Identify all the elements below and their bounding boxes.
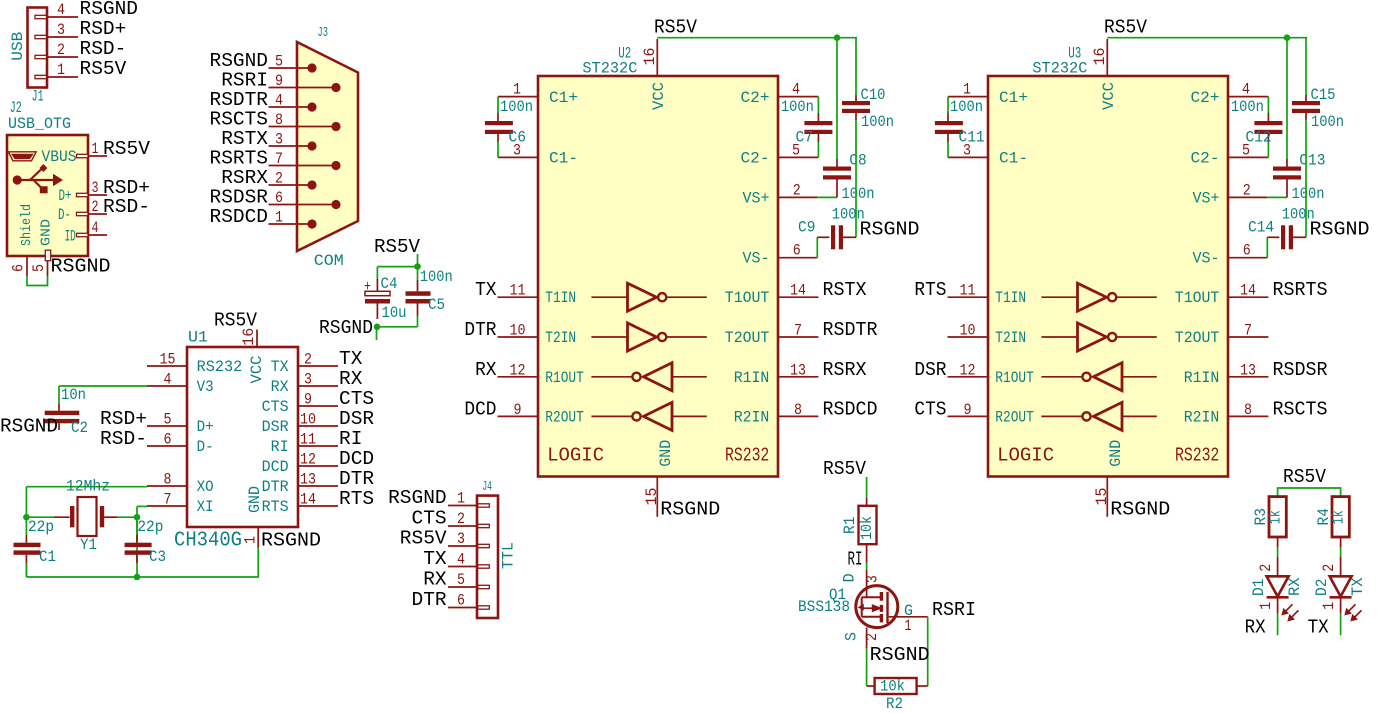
U1 pin 5 D+	[100, 408, 214, 436]
svg-text:RSD+: RSD+	[80, 18, 127, 40]
svg-text:RS232: RS232	[197, 358, 243, 376]
U3 label RS232	[1175, 444, 1219, 466]
svg-text:3: 3	[457, 530, 465, 548]
svg-text:R1IN: R1IN	[734, 369, 770, 387]
net label RS5V at U3	[1104, 17, 1147, 39]
svg-text:R1OUT: R1OUT	[545, 369, 584, 387]
svg-text:RSDTR: RSDTR	[823, 319, 878, 341]
svg-text:8: 8	[794, 401, 802, 419]
svg-text:C2-: C2-	[1191, 149, 1220, 167]
wire RS5V rail at U3	[1107, 37, 1307, 39]
J3 pin 6 RSDSR	[210, 187, 341, 210]
U3 refdes	[1068, 45, 1081, 63]
svg-text:C12: C12	[1246, 129, 1272, 147]
U2 receive buffer 2	[591, 402, 706, 430]
U2 value ST232C	[582, 60, 637, 78]
svg-text:2: 2	[863, 633, 881, 641]
svg-text:8: 8	[164, 471, 172, 489]
svg-text:1: 1	[457, 490, 465, 508]
U3 pin 14 T1OUT	[1175, 279, 1328, 307]
svg-text:COM: COM	[314, 252, 344, 270]
svg-text:1: 1	[1320, 602, 1338, 610]
IC U1 CH340G body	[187, 347, 298, 527]
U2 transmit buffer 1	[591, 283, 706, 311]
U1 pin 7 XI	[147, 491, 214, 517]
J1 name label USB	[9, 32, 27, 61]
svg-text:7: 7	[275, 150, 283, 168]
svg-text:RX: RX	[423, 569, 447, 591]
U2 label GND	[657, 440, 675, 467]
J3 refdes	[318, 26, 329, 41]
svg-text:RSD-: RSD-	[80, 38, 127, 60]
J4 name label TTL	[500, 542, 518, 569]
J4 pin 1 RSGND	[388, 487, 489, 509]
svg-text:4: 4	[164, 371, 172, 389]
svg-text:DCD: DCD	[464, 398, 496, 420]
Q1 value BSS138	[798, 598, 850, 616]
U2 pin 5 C2-	[741, 141, 819, 167]
svg-text:3: 3	[275, 131, 283, 149]
J2 refdes	[10, 99, 22, 117]
svg-text:XO: XO	[197, 478, 214, 496]
U1 pin 15 RS232	[147, 351, 242, 377]
net label RSGND at Q1 source	[870, 644, 930, 666]
svg-text:RTS: RTS	[262, 498, 289, 516]
svg-text:1: 1	[92, 140, 99, 158]
svg-text:RS5V: RS5V	[823, 458, 866, 480]
svg-text:DCD: DCD	[262, 458, 289, 476]
svg-text:4: 4	[457, 551, 465, 569]
J2 pin 1 VBUS / RS5V	[42, 138, 151, 166]
svg-text:USB: USB	[9, 32, 27, 61]
svg-text:10u: 10u	[382, 304, 407, 322]
svg-text:TX: TX	[339, 348, 363, 370]
junction crystal right	[134, 514, 141, 521]
svg-text:7: 7	[794, 322, 802, 340]
net label RS5V at LEDs	[1283, 466, 1326, 488]
svg-text:RS232: RS232	[725, 444, 769, 466]
Q1 refdes	[829, 586, 846, 604]
svg-text:C10: C10	[861, 86, 886, 104]
svg-text:ST232C: ST232C	[1032, 60, 1087, 78]
net label RSGND at U3 pin 15	[1110, 499, 1170, 521]
svg-text:RSGND: RSGND	[1110, 499, 1170, 521]
wire RS5V rail at U2	[657, 37, 857, 39]
capacitor C1 22p	[14, 517, 57, 577]
net label RSGND at C14	[1310, 219, 1370, 241]
svg-text:VCC: VCC	[1100, 82, 1118, 110]
D2 labels	[1313, 564, 1367, 610]
wire R3 to D1	[1277, 547, 1279, 556]
net label RS5V at C4/C5	[374, 236, 420, 258]
J4 refdes	[482, 480, 492, 495]
svg-text:DSR: DSR	[914, 359, 946, 381]
svg-text:10: 10	[510, 322, 526, 340]
U3 transmit buffer 2	[1041, 323, 1156, 351]
svg-text:C13: C13	[1299, 151, 1325, 169]
svg-text:RSDSR: RSDSR	[1273, 359, 1328, 381]
svg-text:VS-: VS-	[1193, 250, 1220, 268]
svg-text:2: 2	[1243, 181, 1251, 199]
U2 pin 9 R2OUT	[464, 398, 583, 426]
svg-text:VCC: VCC	[248, 356, 266, 384]
svg-text:6: 6	[457, 592, 465, 610]
svg-text:10k: 10k	[858, 516, 876, 540]
svg-text:14: 14	[790, 282, 806, 300]
wire D2 to TX net	[1340, 613, 1342, 635]
capacitor C14 100n	[1248, 205, 1315, 257]
svg-text:1: 1	[57, 61, 65, 79]
svg-text:6: 6	[10, 264, 28, 272]
svg-text:2: 2	[457, 510, 465, 528]
U3 value ST232C	[1032, 60, 1087, 78]
svg-text:C8: C8	[849, 151, 866, 169]
svg-text:11: 11	[510, 282, 526, 300]
svg-text:C11: C11	[959, 129, 985, 147]
svg-text:ST232C: ST232C	[582, 60, 637, 78]
svg-text:DTR: DTR	[464, 319, 496, 341]
J4 pin 2 CTS	[412, 508, 490, 530]
connector J4 TTL body	[477, 496, 498, 618]
svg-text:RS5V: RS5V	[400, 528, 447, 550]
svg-text:RSGND: RSGND	[319, 317, 373, 339]
svg-text:RSRX: RSRX	[823, 359, 867, 381]
svg-text:6: 6	[793, 242, 801, 260]
svg-text:RS232: RS232	[1175, 444, 1219, 466]
capacitor C15 100n	[1292, 38, 1344, 238]
wire RI net	[866, 563, 868, 571]
U3 pin 10 T2IN	[948, 322, 1027, 348]
wire U1 pin1 to ground bus	[137, 547, 258, 577]
J4 pin 4 TX	[423, 548, 489, 570]
svg-text:9: 9	[514, 401, 522, 419]
junction C4 bottom	[374, 324, 381, 331]
J3 name label COM	[314, 252, 344, 270]
svg-text:100n: 100n	[1231, 98, 1264, 116]
U3 pin 16 VCC	[1091, 39, 1109, 76]
net label RSGND at U1 pin1	[261, 530, 321, 552]
svg-text:4: 4	[792, 81, 800, 99]
svg-text:15: 15	[643, 488, 661, 506]
connector J2 USB_OTG value label	[8, 115, 71, 133]
U1 pin 6 D-	[100, 428, 214, 456]
svg-text:TTL: TTL	[500, 542, 518, 569]
svg-text:CH340G: CH340G	[174, 530, 242, 553]
svg-text:GND: GND	[1107, 440, 1125, 467]
svg-text:4: 4	[57, 1, 65, 19]
wire RS5V to R1	[866, 477, 868, 498]
U3 label GND	[1107, 440, 1125, 467]
svg-text:2: 2	[304, 351, 312, 369]
net label RSRI	[932, 599, 976, 621]
svg-text:VBUS: VBUS	[42, 148, 77, 166]
U2 pin 13 R1IN	[734, 359, 867, 387]
net label RS5V at R1	[823, 458, 866, 480]
J3 pin 5 RSGND	[210, 50, 317, 73]
wire U1 pin4 V3 to C2	[59, 386, 147, 404]
svg-text:J4: J4	[482, 480, 492, 495]
svg-text:Y1: Y1	[80, 536, 97, 554]
svg-text:1k: 1k	[1267, 510, 1285, 524]
svg-text:22p: 22p	[137, 518, 163, 536]
J2 label Shield	[19, 204, 35, 246]
U3 pin 15 GND	[1093, 477, 1111, 517]
LED D2 TX	[1330, 557, 1362, 621]
J1 pin 3 RSD+	[35, 18, 126, 40]
svg-text:C15: C15	[1311, 86, 1336, 104]
U3 receive buffer 1	[1041, 363, 1156, 391]
U2 receive buffer 1	[591, 363, 706, 391]
U2 pin 15 GND	[643, 477, 661, 517]
svg-text:DSR: DSR	[262, 418, 289, 436]
svg-text:100n: 100n	[500, 98, 533, 116]
svg-text:C2: C2	[71, 419, 88, 437]
svg-text:6: 6	[275, 189, 283, 207]
svg-text:GND: GND	[657, 440, 675, 467]
svg-text:RS5V: RS5V	[374, 236, 420, 258]
svg-text:TX: TX	[1349, 577, 1367, 596]
capacitor C7 100n	[781, 97, 833, 158]
svg-text:RSRTS: RSRTS	[1273, 279, 1328, 301]
U3 pin 11 T1IN	[914, 279, 1026, 307]
svg-text:RSGND: RSGND	[388, 487, 447, 509]
svg-text:5: 5	[164, 411, 172, 429]
svg-text:R2OUT: R2OUT	[995, 408, 1034, 426]
U3 pin 12 R1OUT	[914, 359, 1033, 387]
net label RSGND at C2	[0, 416, 58, 438]
net label TX at D2	[1308, 616, 1329, 638]
svg-text:10: 10	[300, 411, 316, 429]
svg-text:RS5V: RS5V	[1104, 17, 1147, 39]
U2 label LOGIC	[547, 444, 604, 466]
svg-text:C3: C3	[149, 548, 166, 566]
J2 pin 4 ID	[65, 219, 107, 246]
svg-text:R2IN: R2IN	[1184, 408, 1220, 426]
U2 pin 3 C1-	[498, 141, 578, 167]
U3 pin 3 C1-	[948, 141, 1028, 167]
svg-text:100n: 100n	[1311, 113, 1344, 131]
J3 pin 8 RSCTS	[210, 109, 341, 132]
svg-text:DTR: DTR	[339, 468, 374, 490]
capacitor C4 10u polarized	[364, 275, 407, 322]
svg-text:RS5V: RS5V	[214, 310, 257, 332]
svg-text:CTS: CTS	[412, 508, 447, 530]
U3 receive buffer 2	[1041, 402, 1156, 430]
svg-text:Shield: Shield	[19, 204, 35, 246]
svg-text:DTR: DTR	[262, 478, 289, 496]
svg-text:10: 10	[960, 322, 976, 340]
J1 pin 2 RSD-	[35, 38, 126, 60]
svg-text:C7: C7	[796, 129, 813, 147]
D1 labels	[1250, 564, 1304, 610]
J2 pin 6 Shield stub	[10, 256, 28, 276]
U1 pin 1 GND	[242, 527, 260, 547]
U3 pin 4 C2+	[1191, 81, 1269, 107]
svg-text:C1-: C1-	[999, 149, 1028, 167]
U2 pin 8 R2IN	[734, 398, 878, 426]
svg-text:13: 13	[300, 471, 316, 489]
svg-text:2: 2	[793, 181, 801, 199]
J3 pin 3 RSTX	[221, 128, 316, 151]
U1 pin 8 XO	[147, 471, 214, 497]
svg-text:10n: 10n	[61, 386, 86, 404]
svg-text:V3: V3	[197, 378, 214, 396]
junction ground bus	[134, 574, 141, 581]
svg-text:C2+: C2+	[741, 89, 770, 107]
J4 pin 5 RX	[423, 569, 489, 591]
svg-text:4: 4	[1242, 81, 1250, 99]
svg-text:100n: 100n	[950, 98, 983, 116]
svg-text:RSGND: RSGND	[860, 219, 920, 241]
U2 pin 14 T1OUT	[725, 279, 867, 307]
svg-text:C9: C9	[798, 219, 815, 237]
wire gate to RSRI and R2 right	[927, 617, 929, 686]
svg-text:TX: TX	[1308, 616, 1329, 638]
U1 pin 4 V3	[147, 371, 214, 397]
svg-text:RSTX: RSTX	[823, 279, 867, 301]
capacitor C10 100n	[842, 38, 894, 238]
svg-text:RX: RX	[475, 359, 497, 381]
U3 label VCC	[1100, 82, 1118, 110]
svg-text:9: 9	[275, 72, 283, 90]
U2 pin 16 VCC	[641, 39, 659, 76]
svg-text:5: 5	[275, 53, 283, 71]
svg-text:2: 2	[1320, 564, 1338, 572]
svg-text:1: 1	[963, 81, 971, 99]
wire VS+ to C8	[817, 196, 837, 198]
svg-text:XI: XI	[197, 498, 214, 516]
svg-text:TX: TX	[423, 548, 447, 570]
wire RS5V to R3/R4	[1278, 488, 1341, 497]
svg-text:2: 2	[1257, 564, 1275, 572]
LED D1 RX	[1267, 557, 1299, 621]
wire J2 pins 6-5 to RSGND	[27, 276, 48, 286]
svg-text:R2OUT: R2OUT	[545, 408, 584, 426]
svg-text:11: 11	[300, 431, 316, 449]
svg-text:D1: D1	[1250, 579, 1268, 596]
U1 refdes	[188, 329, 208, 347]
svg-text:RSCTS: RSCTS	[1273, 398, 1328, 420]
U2 label RS232	[725, 444, 769, 466]
svg-text:16: 16	[1091, 48, 1109, 66]
junction RS5V rail at U3	[1284, 34, 1291, 41]
net label RS5V at U2	[654, 17, 697, 39]
net label RSGND at C9	[860, 219, 920, 241]
resistor R4 1k	[1315, 497, 1349, 548]
capacitor C13 100n	[1273, 38, 1325, 203]
resistor R2 10k	[867, 678, 928, 713]
U1 pin 13 DTR	[262, 468, 375, 496]
J4 pin 3 RS5V	[400, 528, 489, 550]
net label RS5V at U1	[214, 310, 257, 332]
svg-text:DTR: DTR	[412, 589, 447, 611]
svg-text:RSDCD: RSDCD	[823, 398, 878, 420]
J2 pin 3 D+ / RSD+	[59, 177, 151, 205]
svg-text:T1OUT: T1OUT	[725, 289, 770, 307]
J3 pin 2 RSRX	[221, 167, 316, 190]
J3 pin 1 RSDCD	[210, 206, 317, 229]
U1 label VCC	[248, 356, 266, 384]
svg-text:VS-: VS-	[743, 250, 770, 268]
svg-text:100n: 100n	[781, 98, 814, 116]
U2 transmit buffer 2	[591, 323, 706, 351]
svg-text:RSD+: RSD+	[100, 408, 147, 430]
U2 label VCC	[650, 82, 668, 110]
U1 pin 2 TX	[271, 348, 363, 376]
svg-text:CTS: CTS	[339, 388, 374, 410]
junction RS5V/C5	[414, 263, 421, 270]
svg-text:100n: 100n	[420, 268, 453, 286]
svg-text:ID: ID	[65, 228, 76, 246]
wire D1 to RX net	[1277, 613, 1279, 635]
net label RSGND at J2	[51, 256, 111, 278]
capacitor C5 100n	[406, 267, 453, 327]
transistor Q1 BSS138	[856, 570, 928, 649]
svg-text:8: 8	[275, 111, 283, 129]
svg-text:LOGIC: LOGIC	[547, 444, 604, 466]
capacitor C12 100n	[1231, 97, 1283, 158]
Q1 pin labels D G S and numbers	[841, 573, 914, 641]
svg-text:T2IN: T2IN	[545, 329, 576, 347]
svg-text:RS5V: RS5V	[80, 58, 127, 80]
svg-text:1: 1	[242, 536, 260, 544]
svg-text:RTS: RTS	[914, 279, 946, 301]
svg-text:3: 3	[92, 179, 99, 197]
svg-text:T1IN: T1IN	[995, 289, 1026, 307]
svg-text:D: D	[841, 573, 859, 582]
svg-text:C2+: C2+	[1191, 89, 1220, 107]
svg-text:R2IN: R2IN	[734, 408, 770, 426]
U1 pin 3 RX	[271, 368, 363, 396]
svg-text:C6: C6	[509, 129, 526, 147]
svg-text:2: 2	[92, 198, 99, 216]
svg-text:C5: C5	[428, 296, 445, 314]
wire crystal left to C1	[26, 516, 54, 518]
svg-text:C1-: C1-	[549, 149, 578, 167]
U3 pin 9 R2OUT	[914, 398, 1033, 426]
svg-text:11: 11	[960, 282, 976, 300]
svg-text:10k: 10k	[880, 678, 905, 696]
svg-text:TX: TX	[475, 279, 497, 301]
svg-text:D+: D+	[59, 187, 72, 205]
svg-text:RSGND: RSGND	[1310, 219, 1370, 241]
svg-text:15: 15	[160, 351, 176, 369]
svg-text:C4: C4	[381, 275, 398, 293]
U1 label GND	[246, 486, 264, 513]
capacitor C9 100n	[798, 205, 865, 257]
svg-text:RI: RI	[848, 548, 863, 570]
svg-text:5: 5	[457, 571, 465, 589]
svg-text:7: 7	[164, 491, 172, 509]
svg-text:5: 5	[30, 264, 48, 272]
svg-text:3: 3	[304, 371, 312, 389]
J4 pin 6 DTR	[412, 589, 490, 611]
svg-text:VCC: VCC	[650, 82, 668, 110]
svg-text:RSD-: RSD-	[103, 196, 150, 218]
svg-text:C2-: C2-	[741, 149, 770, 167]
svg-text:U1: U1	[188, 329, 208, 347]
svg-text:D+: D+	[197, 418, 214, 436]
svg-text:D-: D-	[58, 206, 71, 224]
svg-text:T1IN: T1IN	[545, 289, 576, 307]
svg-text:T1OUT: T1OUT	[1175, 289, 1220, 307]
J2 pin 2 D- / RSD-	[58, 196, 150, 224]
svg-text:9: 9	[304, 391, 312, 409]
svg-text:12: 12	[300, 451, 316, 469]
svg-text:100n: 100n	[1292, 185, 1325, 203]
wire VS+ to C13	[1267, 196, 1287, 198]
svg-text:C1+: C1+	[549, 89, 578, 107]
